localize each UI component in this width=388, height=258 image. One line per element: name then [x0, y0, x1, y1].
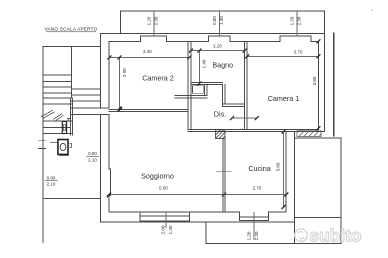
- svg-text:2.10: 2.10: [88, 157, 97, 162]
- svg-text:Camera 2: Camera 2: [142, 73, 174, 82]
- dim door dis/camera1: [232, 117, 257, 119]
- svg-text:3.80: 3.80: [312, 76, 317, 85]
- dim 3.70: [247, 55, 318, 57]
- svg-text:3.40: 3.40: [143, 49, 152, 54]
- svg-text:1.20: 1.20: [147, 16, 152, 25]
- dim 5.00: [109, 194, 224, 196]
- svg-text:VANO SCALA APERTO: VANO SCALA APERTO: [45, 27, 98, 32]
- room labels: [141, 61, 299, 181]
- overhang top line: [121, 11, 325, 33]
- dim 2.70: [224, 194, 286, 196]
- balcony right edge line: [333, 33, 335, 136]
- svg-text:2.00: 2.00: [161, 225, 166, 234]
- hatched pilaster cucina corner: [216, 130, 226, 139]
- top wall outer: [101, 32, 325, 34]
- svg-text:Camera 1: Camera 1: [268, 94, 300, 103]
- dim 2.20: [191, 50, 245, 52]
- svg-text:Bagno: Bagno: [212, 61, 233, 70]
- svg-text:1.20: 1.20: [247, 231, 252, 240]
- svg-text:0.90: 0.90: [47, 176, 56, 181]
- ext line win3: [296, 11, 298, 36]
- svg-text:0.90: 0.90: [88, 151, 97, 156]
- svg-text:3.60: 3.60: [275, 162, 280, 171]
- svg-text:1.20: 1.20: [289, 16, 294, 25]
- wall camera2/soggiorno (h4): [109, 109, 188, 111]
- top wall inner segments: [109, 41, 318, 43]
- window W2 top: [209, 36, 231, 42]
- svg-text:Cucina: Cucina: [248, 164, 270, 173]
- svg-text:1.30: 1.30: [168, 225, 173, 234]
- cucina door recess: [239, 212, 268, 220]
- svg-text:2.30: 2.30: [154, 16, 159, 25]
- left wall inner: [108, 42, 110, 169]
- dim 3.40: [109, 56, 189, 58]
- svg-text:2.30: 2.30: [297, 16, 302, 25]
- dim 3.60: [283, 132, 285, 207]
- stair top: [43, 45, 100, 47]
- ext line win1: [153, 11, 155, 36]
- svg-text:0.80: 0.80: [212, 16, 217, 25]
- wall bagno/camera1 (v5): [245, 42, 248, 130]
- niche jog (v2): [205, 85, 207, 96]
- door sill soggiorno-cucina: [216, 171, 231, 173]
- dim 1.40: [198, 51, 200, 84]
- ext line win2: [219, 11, 221, 36]
- svg-text:2.70: 2.70: [253, 185, 262, 190]
- landing lines: [43, 121, 72, 134]
- ext line cucina door: [253, 212, 255, 240]
- right wall outer: [323, 33, 325, 131]
- terrace outline: [206, 138, 341, 243]
- window soggiorno: [140, 212, 190, 221]
- stair divider: [70, 46, 72, 135]
- stair left wall long line: [42, 46, 44, 242]
- svg-text:2.30: 2.30: [254, 231, 259, 240]
- svg-text:Dis.: Dis.: [214, 109, 226, 118]
- cucina right wall: [286, 132, 294, 223]
- left flight steps: [43, 75, 71, 104]
- bottom wall inner: [109, 211, 286, 213]
- watermark subito: [295, 226, 362, 246]
- dim 2.90: [119, 57, 121, 108]
- ticks on boundary: [39, 141, 46, 149]
- dimension tick marks: [107, 39, 321, 209]
- pill fixture: [62, 119, 70, 134]
- left wall door jog: [109, 169, 110, 212]
- left wall outer: [100, 33, 102, 222]
- wall dis top / door leaf (h3): [175, 95, 207, 97]
- right flight steps: [71, 89, 100, 101]
- dimension texts: [47, 16, 317, 241]
- wall soggiorno/cucina (v6): [223, 139, 225, 213]
- ext line soggiorno window: [165, 212, 167, 228]
- wall camera2 right (v3): [188, 42, 191, 130]
- bottom wall outer: [101, 221, 294, 223]
- sink in niche: [193, 86, 204, 93]
- svg-text:subito: subito: [310, 226, 362, 246]
- svg-text:2.10: 2.10: [47, 181, 56, 186]
- break marks: [42, 110, 64, 121]
- heater fixture: [50, 140, 71, 156]
- bagno lower-right box walls: [223, 85, 245, 107]
- window W3 top: [280, 36, 311, 42]
- wall bagno bottom-left (h1): [191, 83, 223, 85]
- svg-text:1.40: 1.40: [202, 59, 207, 68]
- svg-text:2.20: 2.20: [213, 44, 222, 49]
- svg-text:2.90: 2.90: [122, 68, 127, 77]
- garden line: [43, 198, 100, 200]
- dimension lines: [109, 11, 318, 240]
- svg-text:x: x: [371, 7, 373, 12]
- svg-text:Soggiorno: Soggiorno: [141, 172, 174, 181]
- svg-text:3.70: 3.70: [294, 50, 303, 55]
- staircase: [39, 46, 110, 242]
- wall camera1-bottom / cucina-top outer pair: [188, 130, 324, 132]
- fraction bars for door labels: [45, 157, 99, 181]
- svg-text:5.00: 5.00: [159, 185, 168, 190]
- header label: [45, 27, 98, 32]
- right wall inner: [317, 42, 319, 130]
- corridor to plan: [71, 108, 109, 115]
- hatched slab top-right: [297, 131, 321, 137]
- window W1 top: [140, 36, 166, 42]
- svg-text:1.30: 1.30: [219, 16, 224, 25]
